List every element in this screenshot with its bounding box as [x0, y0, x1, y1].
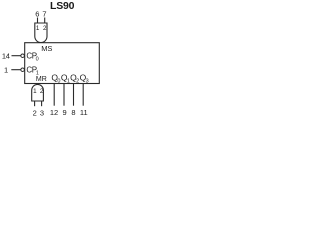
svg-text:11: 11: [80, 108, 88, 117]
svg-text:12: 12: [50, 108, 58, 117]
svg-text:3: 3: [86, 78, 89, 84]
MR AND gate (pointing up): [32, 84, 44, 101]
svg-text:LS90: LS90: [50, 0, 75, 12]
pin 2 wire: [34, 101, 36, 106]
pin 14 wire: [12, 55, 21, 57]
svg-text:8: 8: [71, 108, 75, 117]
svg-text:1: 1: [4, 66, 8, 75]
svg-text:MR: MR: [36, 76, 47, 83]
svg-text:2: 2: [40, 88, 44, 95]
svg-text:MS: MS: [41, 44, 52, 53]
Q1 output wire: [63, 84, 65, 106]
Q3 output wire: [82, 84, 84, 106]
pin 7 wire: [44, 18, 46, 24]
svg-text:2: 2: [43, 25, 47, 32]
pin 1 wire: [11, 69, 20, 71]
svg-text:3: 3: [40, 108, 44, 117]
svg-text:1: 1: [36, 25, 40, 32]
pin 3 wire: [41, 101, 43, 106]
Q2 output wire: [73, 84, 75, 106]
Q0 output wire: [53, 84, 55, 106]
svg-text:0: 0: [36, 56, 39, 62]
svg-text:9: 9: [63, 108, 67, 117]
svg-text:7: 7: [42, 10, 46, 19]
CP1 inversion bubble: [21, 68, 25, 72]
svg-text:14: 14: [2, 52, 10, 61]
MS AND gate (pointing down): [35, 23, 47, 43]
CP0 inversion bubble: [21, 54, 25, 58]
svg-text:1: 1: [33, 88, 37, 95]
pin 6 wire: [37, 18, 39, 24]
svg-text:6: 6: [35, 10, 39, 19]
svg-text:2: 2: [33, 108, 37, 117]
main box U1 LS90 body: [25, 43, 100, 84]
